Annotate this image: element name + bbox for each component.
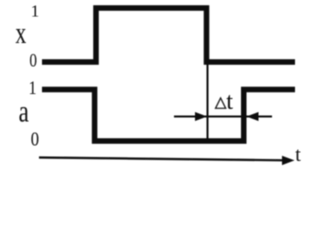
svg-text:x: x (15, 15, 26, 50)
svg-text:t: t (226, 88, 233, 115)
svg-text:a: a (19, 94, 29, 128)
svg-text:t: t (295, 144, 301, 166)
svg-text:0: 0 (29, 50, 37, 71)
svg-text:0: 0 (31, 128, 39, 150)
svg-text:1: 1 (31, 2, 40, 21)
svg-text:1: 1 (29, 77, 37, 99)
